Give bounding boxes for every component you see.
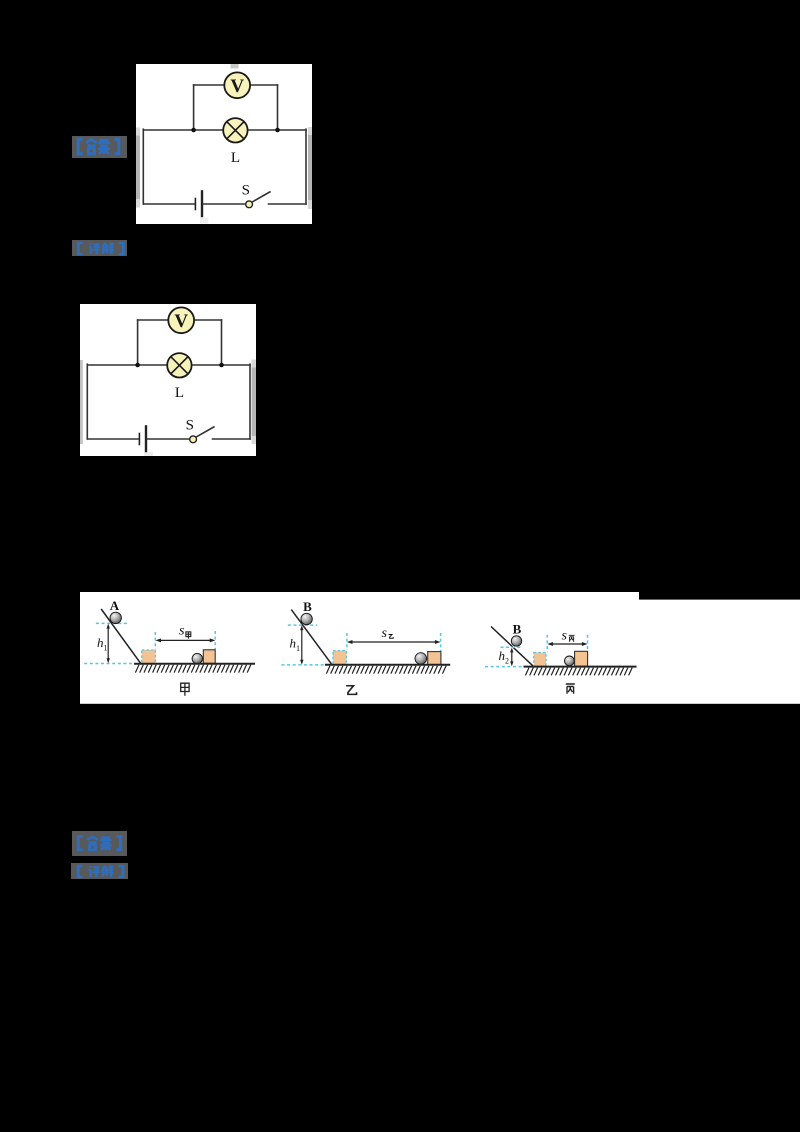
- wire: voltmeter branch top left horizontal: [194, 84, 225, 86]
- highlighted label: explain tag 4: [71, 863, 128, 879]
- dashed level line at ball height bing: [501, 646, 523, 648]
- grey strip left edge of panel 1: [136, 128, 140, 208]
- svg-text:B: B: [303, 599, 312, 614]
- incline yi: [291, 610, 332, 665]
- wire: battery to switch: [203, 203, 245, 205]
- highlighted label: answer tag 1: [72, 136, 127, 158]
- white band of physics figure: [80, 592, 639, 704]
- ground line bing: [524, 666, 637, 668]
- ball B on incline yi: [301, 613, 312, 624]
- ball B on incline bing: [511, 636, 521, 646]
- highlighted label: explain tag 2: [72, 240, 127, 256]
- dashed vertical at s start jia: [154, 632, 156, 650]
- dashed vertical at s start yi: [346, 633, 348, 650]
- grey strip right edge of panel 1: [308, 127, 312, 209]
- svg-text:B: B: [513, 622, 522, 637]
- highlighted label: answer tag 3: [72, 831, 127, 856]
- incline jia: [101, 609, 141, 664]
- voltmeter V body: [224, 72, 250, 98]
- dashed vertical at s end bing: [587, 635, 589, 651]
- wire: voltmeter branch right vertical: [277, 85, 279, 130]
- selection handle bottom-center of panel 1: [200, 218, 208, 224]
- switch S lever: [252, 192, 270, 202]
- caption bing: [566, 684, 575, 694]
- ball A on incline: [110, 612, 121, 623]
- ground line jia: [134, 663, 255, 665]
- distance arrow s yi: [351, 641, 438, 643]
- final block jia: [203, 650, 215, 664]
- wire: right outer vertical: [305, 129, 307, 204]
- dashed level line at ball height jia: [96, 622, 128, 624]
- wire: switch to right corner: [269, 203, 307, 205]
- distance arrow s bing: [551, 643, 584, 645]
- svg-text:V: V: [230, 76, 244, 97]
- svg-text:1: 1: [104, 644, 108, 653]
- caption jia: [181, 683, 189, 696]
- battery positive plate (long): [201, 191, 203, 216]
- height arrow h1 yi: [301, 628, 303, 663]
- selection smudge bottom-center of panel 2: [144, 452, 153, 456]
- dashed ground level line yi: [282, 664, 324, 666]
- dashed vertical at s start bing: [546, 635, 548, 652]
- caption yi: [346, 686, 356, 695]
- circuit 1: [143, 72, 306, 216]
- initial block (dashed) jia: [142, 650, 156, 663]
- circuit 2 (copy of circuit 1): [87, 307, 250, 451]
- final block bing: [575, 651, 588, 666]
- distance arrow s jia: [159, 639, 212, 641]
- physics figure: sub-diagram yi: [282, 599, 451, 694]
- wire: voltmeter branch top right horizontal: [250, 84, 278, 86]
- white image panel 1 (circuit figure background): [136, 64, 312, 224]
- height arrow h2 bing: [511, 650, 513, 664]
- final block yi: [428, 652, 441, 665]
- junction node left: [191, 128, 196, 133]
- dashed ground level line bing: [485, 666, 523, 668]
- white image panel 2 (circuit figure background): [80, 304, 256, 456]
- height arrow h1 jia: [107, 626, 109, 662]
- incline bing: [491, 627, 534, 667]
- ground hatching yi: [326, 666, 446, 674]
- dashed level line at ball height yi: [288, 624, 317, 626]
- svg-text:s: s: [179, 624, 185, 639]
- dashed vertical at s end jia: [214, 631, 216, 650]
- svg-text:L: L: [231, 150, 240, 166]
- final ball yi: [415, 653, 427, 665]
- grey strip left edge of panel 2: [80, 360, 83, 444]
- lamp L body: [223, 118, 247, 142]
- lamp L cross: [227, 122, 244, 139]
- ground line yi: [325, 664, 450, 666]
- junction node right: [275, 128, 280, 133]
- initial block (dashed) bing: [534, 653, 546, 667]
- svg-text:S: S: [242, 183, 250, 199]
- wire: left outer vertical: [142, 129, 144, 204]
- svg-text:1: 1: [296, 644, 300, 653]
- wire: bottom left segment to battery: [143, 203, 194, 205]
- selection handle top-center of panel 1: [231, 64, 239, 69]
- svg-text:2: 2: [505, 657, 509, 666]
- dashed ground level line jia: [84, 663, 132, 665]
- initial block (dashed) yi: [333, 651, 346, 665]
- wire: voltmeter branch left vertical: [193, 85, 195, 130]
- svg-text:A: A: [110, 598, 120, 613]
- dashed vertical at s end yi: [440, 633, 442, 651]
- ground hatching jia: [135, 665, 250, 673]
- svg-text:s: s: [382, 626, 388, 641]
- ground hatching bing: [525, 668, 632, 676]
- battery negative plate (short thick): [194, 199, 196, 210]
- physics figure: sub-diagram jia: [84, 598, 255, 696]
- svg-text:s: s: [562, 629, 568, 644]
- final ball bing: [565, 656, 575, 666]
- switch S pivot circle: [246, 201, 253, 208]
- grey strip right edge of panel 2: [252, 360, 256, 440]
- physics figure: sub-diagram bing: [485, 622, 637, 694]
- final ball jia: [192, 653, 202, 663]
- wire: main horizontal (node between lamp terminals): [143, 129, 306, 131]
